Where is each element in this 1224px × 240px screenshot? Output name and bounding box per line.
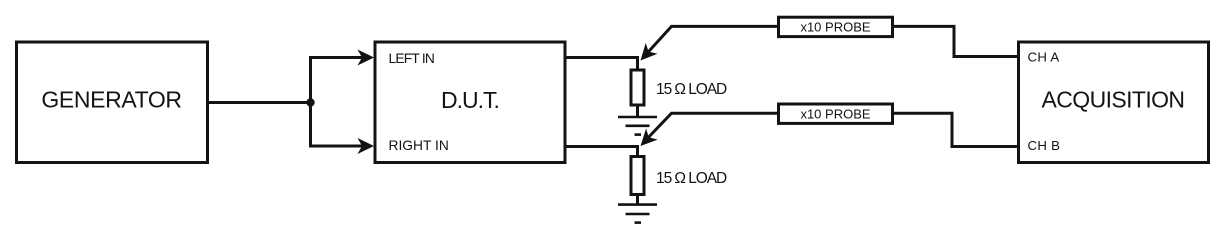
svg-text:D.U.T.: D.U.T. <box>441 87 499 113</box>
svg-text:RIGHT IN: RIGHT IN <box>389 138 449 153</box>
wire probe B to CH B <box>893 113 1017 146</box>
wire resistor B to ground <box>636 195 639 205</box>
resistor load B <box>631 157 644 195</box>
probe box B <box>779 104 893 123</box>
wire probe A to CH A <box>893 26 1017 56</box>
junction dot <box>306 98 314 106</box>
svg-text:15 Ω LOAD: 15 Ω LOAD <box>656 170 727 187</box>
acquisition box <box>1019 42 1209 163</box>
arrow probe A tip <box>635 43 658 66</box>
wire splitter vertical <box>309 58 312 147</box>
wire DUT left channel out <box>565 58 638 71</box>
probe A cable <box>644 26 777 56</box>
probe B cable <box>644 113 777 142</box>
ground B <box>618 205 657 223</box>
svg-text:x10 PROBE: x10 PROBE <box>800 20 870 35</box>
arrow into LEFT IN <box>358 50 375 66</box>
resistor load A <box>631 70 644 105</box>
svg-text:x10 PROBE: x10 PROBE <box>800 107 870 122</box>
wire to LEFT IN <box>309 56 366 59</box>
generator box <box>17 42 208 163</box>
probe box A <box>779 17 893 36</box>
svg-text:CH B: CH B <box>1028 138 1061 153</box>
arrow into RIGHT IN <box>358 138 375 154</box>
svg-text:LEFT IN: LEFT IN <box>389 51 435 66</box>
D.U.T. box <box>375 42 565 163</box>
svg-text:CH A: CH A <box>1028 49 1060 64</box>
ground A <box>618 117 657 135</box>
wire resistor A to ground <box>636 105 639 117</box>
wire DUT right channel out <box>565 147 638 158</box>
wire to RIGHT IN <box>309 145 366 148</box>
svg-text:GENERATOR: GENERATOR <box>41 87 181 113</box>
arrow probe B tip <box>635 129 658 152</box>
svg-text:15 Ω LOAD: 15 Ω LOAD <box>656 81 727 98</box>
svg-text:ACQUISITION: ACQUISITION <box>1042 87 1185 113</box>
wire generator output <box>208 101 311 104</box>
